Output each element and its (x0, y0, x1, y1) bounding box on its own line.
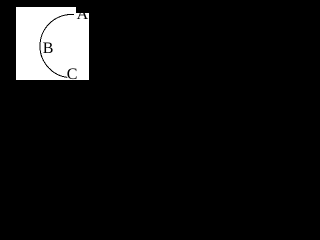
circle arc through A, B, C (40, 14, 74, 77)
svg-text:C: C (67, 66, 78, 83)
svg-text:A: A (77, 6, 89, 23)
svg-text:B: B (43, 40, 54, 57)
white panel (16, 7, 89, 80)
black notch over top-right of panel (76, 0, 89, 13)
